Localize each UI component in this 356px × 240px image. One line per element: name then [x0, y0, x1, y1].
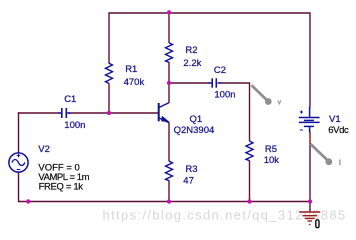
svg-text:47: 47	[183, 175, 194, 186]
svg-text:100n: 100n	[214, 90, 235, 101]
wire bottom rail	[19, 201, 311, 203]
wire top rail	[109, 12, 310, 14]
junction top rail / R2	[167, 10, 171, 14]
label probe I	[339, 160, 341, 166]
source V2 (VSIN)	[9, 153, 28, 172]
wire base row right (C1 to base)	[70, 112, 159, 114]
wire right rail top (to V1)	[309, 12, 311, 107]
wire left column upper (to V2 plus)	[18, 112, 20, 153]
ground 0 symbol	[299, 212, 320, 225]
junction bottom rail / R3	[167, 199, 171, 203]
svg-text:V1: V1	[329, 114, 341, 125]
svg-text:C1: C1	[64, 94, 76, 105]
svg-text:R3: R3	[185, 164, 197, 175]
wire R5 bottom lead	[249, 160, 251, 201]
wire left-top vertical (R1 top lead)	[108, 12, 110, 63]
junction bottom rail left	[26, 199, 30, 203]
wire R5 top lead	[249, 82, 251, 141]
wire C2 row right	[220, 82, 250, 84]
junction R2 / C2 / collector	[167, 81, 171, 85]
svg-text:FREQ = 1k: FREQ = 1k	[39, 182, 84, 193]
svg-text:Q2N3904: Q2N3904	[174, 125, 215, 136]
wire collector lead	[168, 83, 170, 103]
svg-text:10k: 10k	[264, 155, 280, 166]
svg-text:Q1: Q1	[190, 114, 203, 125]
capacitor C1	[58, 108, 70, 118]
resistor R5	[246, 141, 253, 161]
label probe v	[278, 100, 281, 104]
wire R3 bottom lead	[168, 180, 170, 201]
transistor Q1	[159, 103, 169, 123]
current probe at battery	[311, 144, 333, 165]
svg-text:C2: C2	[214, 65, 226, 76]
svg-text:V2: V2	[38, 144, 50, 155]
junction base / R1	[107, 111, 111, 115]
wire ground stub	[309, 202, 311, 212]
junction bottom rail / ground	[308, 199, 312, 203]
wire base row left (to C1)	[18, 112, 59, 114]
voltage probe at output	[252, 85, 272, 105]
svg-text:R2: R2	[185, 45, 197, 56]
wire battery bottom column	[309, 132, 311, 202]
resistor R2	[166, 43, 173, 63]
svg-text:R5: R5	[265, 144, 277, 155]
V1 minus mark	[300, 129, 303, 131]
resistor R3	[166, 161, 173, 181]
junction bottom rail / R5	[247, 199, 251, 203]
wire emitter lead	[168, 122, 170, 161]
resistor R1	[106, 63, 113, 83]
wire left column lower (V2 minus down)	[18, 172, 20, 202]
battery pin highlight	[309, 134, 311, 143]
label ground 0	[316, 220, 319, 228]
svg-text:2.2k: 2.2k	[183, 58, 201, 69]
wire R2 bottom to junction	[168, 62, 170, 84]
V1 plus mark	[300, 110, 303, 113]
wire C2 row left	[168, 82, 208, 84]
source V1 (VDC battery)	[299, 107, 320, 132]
capacitor C2	[208, 78, 220, 87]
wire R2 top lead	[168, 12, 170, 43]
svg-text:100n: 100n	[64, 120, 85, 131]
svg-text:470k: 470k	[124, 77, 145, 88]
svg-text:R1: R1	[125, 64, 137, 75]
svg-text:6Vdc: 6Vdc	[328, 125, 349, 136]
wire R1 bottom lead	[108, 83, 110, 113]
